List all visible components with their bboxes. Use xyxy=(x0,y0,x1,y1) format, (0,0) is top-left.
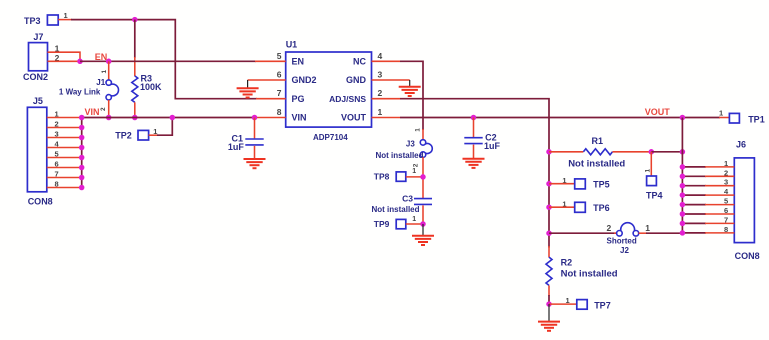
node R1 left junction xyxy=(546,149,552,155)
resistor R2 xyxy=(546,257,572,285)
svg-text:TP4: TP4 xyxy=(646,191,663,201)
wire C3 bottom lead xyxy=(422,205,424,224)
TP1 pin stub xyxy=(719,117,729,119)
wire J5 common vertical xyxy=(81,118,83,188)
wire U1 pin 2 stub xyxy=(372,98,401,100)
wire J6 pin 2 stub xyxy=(682,175,734,177)
svg-text:U1: U1 xyxy=(286,40,298,50)
wire J2 left segment xyxy=(549,232,616,234)
ground for C1 xyxy=(244,159,266,168)
wire J6 pin 3 stub xyxy=(682,185,734,187)
wire U1 pin 8 stub xyxy=(255,117,286,119)
svg-text:2: 2 xyxy=(100,107,107,111)
wire R2 bottom lead xyxy=(548,285,550,296)
wire J6 pin 4 stub xyxy=(682,194,734,196)
wire R3 bottom lead xyxy=(134,102,136,117)
svg-text:2: 2 xyxy=(607,223,612,233)
svg-text:7: 7 xyxy=(277,88,282,98)
wire VOUT net xyxy=(400,117,720,119)
wire TP2 to VIN xyxy=(157,118,172,136)
svg-text:R2: R2 xyxy=(561,258,573,268)
svg-text:2: 2 xyxy=(378,88,383,98)
svg-text:TP2: TP2 xyxy=(115,130,132,140)
svg-text:1: 1 xyxy=(64,11,68,20)
jumper J3 xyxy=(406,140,432,158)
svg-text:1: 1 xyxy=(101,70,108,74)
op-amp/regulator U1 ADP7104 xyxy=(286,40,372,143)
connector J5 CON8 xyxy=(27,96,52,206)
test point TP8 xyxy=(374,171,406,181)
svg-text:1: 1 xyxy=(719,108,723,117)
wire J2 left lead xyxy=(614,232,617,234)
wire U1 pin 3 stub xyxy=(372,79,410,81)
wire R1 to VOUT column xyxy=(651,151,682,153)
svg-text:100K: 100K xyxy=(140,82,162,92)
node J1/VIN junction xyxy=(106,115,112,121)
svg-text:1: 1 xyxy=(378,107,383,117)
node J7 pins junction xyxy=(77,59,83,65)
svg-text:1: 1 xyxy=(412,216,416,223)
ground for U1 pin 3 GND xyxy=(399,80,421,96)
wire U1 pin 4 stub xyxy=(372,60,401,62)
wire J6 pin 5 stub xyxy=(682,204,734,206)
wire J6 pin 6 stub xyxy=(682,213,734,215)
jumper J2 Shorted xyxy=(607,223,639,255)
svg-text:GND: GND xyxy=(346,75,367,85)
ground for R2/TP7 xyxy=(538,304,560,331)
svg-text:PG: PG xyxy=(292,94,305,104)
capacitor C3 xyxy=(402,193,432,204)
TP4 pin stub xyxy=(650,152,652,176)
wire J5 pin 8 stub xyxy=(47,187,82,189)
connector J7 CON2 xyxy=(23,32,48,82)
svg-text:J5: J5 xyxy=(33,96,43,106)
wire ADJ/SNS net xyxy=(400,99,549,248)
node TP8 junction xyxy=(420,174,426,180)
node TP2/VIN junction xyxy=(170,115,176,121)
wire C1 top lead xyxy=(254,118,256,139)
node C1/VIN junction xyxy=(252,115,258,121)
svg-text:TP5: TP5 xyxy=(593,179,610,189)
test point TP9 xyxy=(374,219,406,229)
svg-text:J1: J1 xyxy=(96,78,105,87)
node R1/TP4 junction xyxy=(649,149,655,155)
wire U1 pin 1 stub xyxy=(372,117,401,119)
svg-text:1uF: 1uF xyxy=(484,141,501,151)
svg-text:8: 8 xyxy=(277,107,282,117)
TP6 pin stub xyxy=(549,206,575,208)
node J2 left junction xyxy=(546,230,552,236)
svg-text:5: 5 xyxy=(277,51,282,61)
wire R3 top lead xyxy=(134,20,136,58)
wire VOUT right column xyxy=(681,118,683,233)
svg-text:1: 1 xyxy=(645,223,650,233)
svg-text:NC: NC xyxy=(353,56,366,66)
test point TP4 xyxy=(646,176,663,201)
jumper J1 1 Way Link xyxy=(59,78,119,100)
wire R2 top lead xyxy=(548,246,550,257)
svg-text:EN: EN xyxy=(292,56,305,66)
wire J2 right lead xyxy=(639,232,647,234)
svg-text:VIN: VIN xyxy=(292,113,307,123)
ground for C2 xyxy=(463,159,485,168)
wire NC net xyxy=(400,61,423,130)
wire EN net xyxy=(80,60,256,62)
test point TP6 xyxy=(575,202,610,213)
svg-text:3: 3 xyxy=(378,70,383,80)
capacitor C1 1uF xyxy=(228,134,264,153)
wire C2 top lead xyxy=(473,118,475,138)
node J6 pin junctions xyxy=(680,164,686,236)
node VOUT column R1 junction xyxy=(680,149,686,155)
wire C1 bottom lead xyxy=(254,146,256,158)
TP8 pin stub xyxy=(406,176,423,178)
wire J1 top lead xyxy=(108,61,110,80)
svg-text:R1: R1 xyxy=(592,136,604,146)
test point TP2 xyxy=(115,130,148,140)
node R3/VIN junction xyxy=(132,115,138,121)
svg-text:VOUT: VOUT xyxy=(645,107,671,117)
ground for GND2 xyxy=(237,80,259,98)
svg-text:TP3: TP3 xyxy=(24,16,41,26)
node TP5 junction xyxy=(546,181,552,187)
wire U1 pin 7 stub xyxy=(256,98,286,100)
svg-text:C3: C3 xyxy=(402,193,413,203)
wire R2 to TP7 xyxy=(548,295,550,304)
svg-text:2: 2 xyxy=(413,163,420,167)
wire J5 pin 7 stub xyxy=(47,177,82,179)
wire J5 pin 4 stub xyxy=(47,147,82,149)
node TP3/R3 junction xyxy=(132,17,138,23)
wire J3 top lead xyxy=(422,129,424,140)
wire U1 pin 5 stub xyxy=(255,60,286,62)
wire R1 left lead xyxy=(549,151,583,153)
TP2 pin stub xyxy=(149,134,158,136)
wire J6 pin 8 stub xyxy=(682,232,734,234)
svg-text:ADP7104: ADP7104 xyxy=(313,133,348,142)
svg-text:1: 1 xyxy=(415,128,422,132)
test point TP3 xyxy=(24,15,58,26)
node TP6 junction xyxy=(546,204,552,210)
node J1 top junction xyxy=(106,59,112,65)
svg-text:J7: J7 xyxy=(33,32,43,42)
test point TP7 xyxy=(577,300,611,311)
svg-text:VOUT: VOUT xyxy=(341,113,367,123)
wire J5 pin 2 stub xyxy=(47,127,82,129)
svg-text:Shorted: Shorted xyxy=(607,236,637,245)
svg-text:6: 6 xyxy=(277,70,282,80)
svg-text:GND2: GND2 xyxy=(292,75,317,85)
test point TP1 xyxy=(729,113,764,124)
svg-text:Not installed: Not installed xyxy=(376,151,424,160)
node C2/VOUT junction xyxy=(471,115,477,121)
node VOUT column top junction xyxy=(680,115,686,121)
wire J3 bottom to C3 xyxy=(422,157,424,198)
capacitor C2 1uF xyxy=(464,132,500,151)
wire J7 pin 2 xyxy=(48,60,81,62)
wire J7 pin 1 xyxy=(48,52,81,61)
svg-text:1 Way Link: 1 Way Link xyxy=(59,87,101,96)
svg-text:J2: J2 xyxy=(620,246,629,255)
svg-text:TP8: TP8 xyxy=(374,171,390,181)
wire J2 to J6 column xyxy=(646,232,682,234)
node J5 pin junctions xyxy=(79,115,85,191)
wire J5 pin 5 stub xyxy=(47,157,82,159)
wire J1 bottom lead xyxy=(108,100,110,118)
svg-text:TP7: TP7 xyxy=(594,300,611,310)
TP5 pin stub xyxy=(549,183,575,185)
TP9 pin stub xyxy=(406,223,423,225)
svg-text:1: 1 xyxy=(412,168,416,175)
svg-text:Not installed: Not installed xyxy=(372,205,420,214)
svg-text:J3: J3 xyxy=(406,140,415,149)
svg-text:CON8: CON8 xyxy=(735,251,760,261)
svg-text:CON8: CON8 xyxy=(28,197,53,207)
TP7 pin stub xyxy=(549,303,577,305)
node TP7 junction xyxy=(546,301,552,307)
resistor R1 xyxy=(583,136,612,155)
wire J5 pin 3 stub xyxy=(47,137,82,139)
wire J5 pin 6 stub xyxy=(47,167,82,169)
node TP9 junction xyxy=(420,221,426,227)
svg-text:4: 4 xyxy=(378,51,383,61)
wire R1 right lead xyxy=(613,151,652,153)
svg-text:CON2: CON2 xyxy=(23,72,48,82)
TP3 pin stub xyxy=(58,19,72,21)
wire TP3/PG net top run xyxy=(71,20,257,99)
svg-text:TP6: TP6 xyxy=(593,203,610,213)
wire C2 bottom lead xyxy=(473,145,475,158)
test point TP5 xyxy=(575,179,610,190)
svg-text:J6: J6 xyxy=(736,139,746,149)
connector J6 CON8 xyxy=(734,139,759,261)
wire J5 pin 1 stub xyxy=(47,117,82,119)
wire U1 pin 6 stub xyxy=(248,79,286,81)
wire J6 pin 7 stub xyxy=(682,222,734,224)
svg-text:ADJ/SNS: ADJ/SNS xyxy=(329,94,366,104)
svg-text:VIN: VIN xyxy=(85,107,100,117)
ground for TP9/C3 xyxy=(412,224,434,245)
svg-text:TP1: TP1 xyxy=(748,114,765,124)
wire J6 pin 1 stub xyxy=(682,166,734,168)
resistor R3 xyxy=(132,73,162,102)
svg-text:TP9: TP9 xyxy=(374,219,390,229)
svg-text:Not installed: Not installed xyxy=(568,158,625,169)
svg-text:Not installed: Not installed xyxy=(561,269,618,280)
wire VIN net xyxy=(82,117,255,119)
svg-text:1uF: 1uF xyxy=(228,142,245,152)
